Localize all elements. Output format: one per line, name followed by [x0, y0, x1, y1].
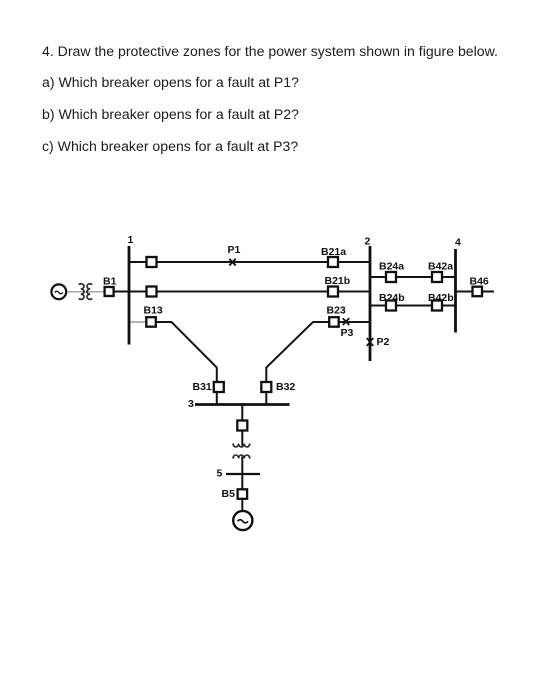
svg-text:B32: B32 — [276, 381, 295, 393]
wire bus2 to breaker B23 to breaker B32 to bus3 — [266, 322, 370, 405]
wire breaker B13 to breaker B31 to bus3 — [155, 322, 217, 405]
transformer T1 — [79, 284, 93, 300]
wire B46 stub from bus4 — [456, 291, 495, 293]
breaker B42a — [432, 272, 442, 282]
svg-text:B23: B23 — [327, 305, 346, 317]
wire generator G1 to transformer T1 — [66, 291, 105, 293]
svg-text:2: 2 — [365, 236, 371, 248]
svg-text:3: 3 — [188, 398, 194, 410]
transformer T2 — [233, 444, 250, 459]
breaker below bus3 (unlabeled) — [237, 421, 247, 431]
bus 5 — [226, 473, 260, 475]
fault mark P3 — [343, 318, 349, 325]
svg-text:B21b: B21b — [325, 275, 351, 287]
breaker B1 — [105, 287, 114, 296]
bus 4 — [454, 249, 457, 333]
bus 1 — [128, 246, 131, 345]
svg-text:B13: B13 — [144, 305, 163, 317]
breaker on row A at bus1 (unlabeled) — [147, 257, 157, 267]
svg-text:P1: P1 — [228, 244, 241, 256]
svg-text:5: 5 — [217, 468, 223, 480]
svg-text:1: 1 — [128, 234, 134, 246]
svg-text:P2: P2 — [377, 336, 390, 348]
svg-text:B46: B46 — [470, 276, 489, 288]
wire bus3 down to transformer T2 — [241, 405, 243, 446]
breaker B24b — [386, 301, 396, 311]
svg-text:4: 4 — [455, 237, 461, 249]
wire row B24b bus2 to bus4 — [370, 305, 456, 307]
wire row B B1 to bus2 — [113, 291, 370, 293]
breaker on row B at bus1 (unlabeled) — [147, 287, 157, 297]
svg-text:B1: B1 — [103, 276, 117, 288]
breaker B24a — [386, 272, 396, 282]
breaker B13 — [146, 317, 156, 327]
breaker B5 — [238, 489, 248, 499]
breaker B32 — [261, 382, 271, 392]
svg-text:B24b: B24b — [379, 292, 405, 304]
wire row A bus1 to bus2 — [129, 261, 370, 263]
svg-text:B31: B31 — [193, 381, 212, 393]
generator G1 — [51, 284, 66, 299]
bus 2 — [369, 246, 372, 361]
fault mark P1 — [229, 259, 235, 266]
bus 3 — [195, 403, 290, 406]
svg-text:B21a: B21a — [321, 246, 346, 258]
breaker B21a — [328, 257, 338, 267]
svg-text:B42a: B42a — [428, 261, 453, 273]
breaker B23 — [329, 317, 339, 327]
svg-text:B42b: B42b — [428, 292, 454, 304]
breaker B21b — [328, 287, 338, 297]
wire row B24a bus2 to bus4 — [370, 276, 456, 278]
svg-text:B5: B5 — [222, 488, 236, 500]
breaker B42b — [432, 301, 442, 311]
fault mark P2 — [367, 338, 373, 346]
svg-text:B24a: B24a — [379, 261, 404, 273]
wire transformer T2 to bus5 to generator G2 — [241, 456, 243, 511]
wire bus1 to breaker B13 — [129, 321, 147, 323]
breaker B31 — [214, 382, 224, 392]
svg-text:P3: P3 — [341, 327, 354, 339]
generator G2 — [233, 511, 252, 530]
breaker B46 — [473, 287, 483, 297]
